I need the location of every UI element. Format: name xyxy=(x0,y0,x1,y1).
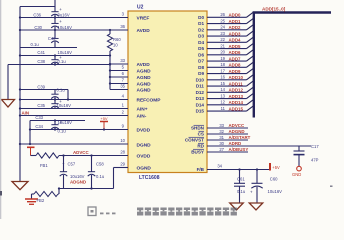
svg-text:C60: C60 xyxy=(270,177,278,182)
svg-text:AIN+: AIN+ xyxy=(137,107,148,113)
svg-text:36: 36 xyxy=(120,24,125,29)
svg-text:+: + xyxy=(59,7,62,12)
capacitor C61 0.1u xyxy=(239,170,241,184)
svg-text:D15: D15 xyxy=(196,109,205,114)
svg-text:13: 13 xyxy=(220,93,225,98)
pin D15 wire pin 11 net ADD15 xyxy=(207,110,247,112)
svg-text:ADD5: ADD5 xyxy=(229,44,242,49)
wire rung AGND pin 6 xyxy=(110,76,128,78)
svg-text:31: 31 xyxy=(219,135,224,140)
svg-text:3u16V: 3u16V xyxy=(58,13,70,18)
svg-text:C35: C35 xyxy=(37,103,45,108)
svg-text:24: 24 xyxy=(220,25,225,30)
svg-text:10u16V: 10u16V xyxy=(57,103,72,108)
svg-text:C41: C41 xyxy=(37,50,45,55)
wire VREF row to pin 3 xyxy=(20,17,128,19)
svg-text:10u16V: 10u16V xyxy=(70,174,85,179)
svg-text:10: 10 xyxy=(120,138,125,143)
pin D12 wire pin 14 net ADD12 xyxy=(207,91,247,93)
svg-text:0.1u: 0.1u xyxy=(237,189,246,194)
svg-text:C58: C58 xyxy=(96,162,104,167)
capacitor C40 0.1u xyxy=(54,30,56,38)
capacitor C30 10u16V xyxy=(54,18,56,24)
svg-text:23: 23 xyxy=(220,31,225,36)
svg-text:GND: GND xyxy=(292,172,301,177)
svg-text:D7: D7 xyxy=(198,59,204,64)
svg-text:ADD12: ADD12 xyxy=(229,88,244,93)
wire row y=55.5 to ladder xyxy=(20,55,110,57)
svg-text:15: 15 xyxy=(220,81,225,86)
svg-text:DGND: DGND xyxy=(137,142,152,148)
svg-text:A/DSTART: A/DSTART xyxy=(229,135,251,140)
pin D14 wire pin 12 net ADD14 xyxy=(207,104,247,106)
svg-text:D0: D0 xyxy=(198,15,204,20)
svg-text:VREF: VREF xyxy=(137,16,150,22)
capacitor C58 0.1u xyxy=(91,156,93,172)
svg-text:D9: D9 xyxy=(198,71,204,76)
svg-text:ADD11: ADD11 xyxy=(229,81,244,86)
op IC U2 LTC1608 body xyxy=(128,11,207,173)
svg-text:ADD[15..0]: ADD[15..0] xyxy=(262,7,286,12)
svg-text:16: 16 xyxy=(220,75,225,80)
svg-text:26: 26 xyxy=(220,12,225,17)
junction dots xyxy=(19,16,21,18)
pin CONVST wire pin 31 net A/DSTART xyxy=(207,139,248,141)
svg-text:D1: D1 xyxy=(198,21,204,26)
svg-text:33: 33 xyxy=(219,123,224,128)
svg-text:10u16V: 10u16V xyxy=(58,50,73,55)
svg-text:D5: D5 xyxy=(198,46,204,51)
svg-text:ADD10: ADD10 xyxy=(229,75,244,80)
wire ADGND bottom rail xyxy=(59,188,114,190)
svg-text:D10: D10 xyxy=(196,77,205,82)
svg-text:CONVST: CONVST xyxy=(185,138,204,143)
svg-text:AGND: AGND xyxy=(137,88,152,94)
svg-text:20: 20 xyxy=(220,50,225,55)
svg-text:AVDD: AVDD xyxy=(137,28,151,34)
caption fragment at bottom xyxy=(88,207,237,216)
svg-text:C33: C33 xyxy=(35,115,43,120)
svg-text:ADD8: ADD8 xyxy=(229,63,242,68)
svg-text:ADD6: ADD6 xyxy=(229,50,242,55)
svg-text:C36: C36 xyxy=(33,13,41,18)
svg-text:ADD3: ADD3 xyxy=(229,31,242,36)
pin D6 wire pin 20 net ADD6 xyxy=(207,54,247,56)
power bar at FB1 input xyxy=(27,146,35,148)
wire bottom short row y=47.5 xyxy=(20,47,77,49)
svg-text:30: 30 xyxy=(219,141,224,146)
svg-text:ADD2: ADD2 xyxy=(229,25,242,30)
svg-text:10: 10 xyxy=(113,43,118,48)
wire FB1 input xyxy=(31,155,37,157)
svg-text:34: 34 xyxy=(217,164,222,169)
ground GND4 at C60 xyxy=(249,203,263,210)
capacitor C41 10u16V xyxy=(54,56,56,60)
capacitor C39 0.1u xyxy=(54,90,56,95)
svg-text:5: 5 xyxy=(122,65,125,70)
wire row y=89.5 with jog xyxy=(20,89,68,91)
svg-text:AGND: AGND xyxy=(137,69,152,75)
svg-text:+5V: +5V xyxy=(100,116,108,121)
svg-text:0.1u: 0.1u xyxy=(58,59,67,64)
svg-text:9: 9 xyxy=(122,124,125,129)
wire rail GND-left vertical x=20 xyxy=(19,7,21,182)
svg-text:D2: D2 xyxy=(198,27,204,32)
svg-text:C38: C38 xyxy=(37,59,45,64)
svg-text:10u16V: 10u16V xyxy=(268,189,283,194)
svg-text:14: 14 xyxy=(220,87,225,92)
svg-text:29: 29 xyxy=(120,162,125,167)
svg-text:ADD13: ADD13 xyxy=(229,94,244,99)
wire AIN- row pin 2 xyxy=(20,115,128,117)
svg-text:AIN: AIN xyxy=(22,111,30,116)
svg-text:ADD14: ADD14 xyxy=(229,100,244,105)
capacitor C35 10u16V xyxy=(54,100,56,104)
svg-text:AGND: AGND xyxy=(137,75,152,81)
svg-text:10u16V: 10u16V xyxy=(58,120,73,125)
svg-text:FB1: FB1 xyxy=(40,163,48,168)
svg-text:0.1u: 0.1u xyxy=(96,174,105,179)
page edge left xyxy=(0,0,1,219)
page speck bottom-left xyxy=(0,191,2,196)
wire C-bank vertical x=30 xyxy=(29,121,31,145)
wire AIN+ row pin 1 xyxy=(20,108,128,110)
ground GND3 at C61 xyxy=(230,203,244,210)
svg-text:+: + xyxy=(62,162,65,167)
earth ground red at FB2 xyxy=(25,198,38,200)
svg-text:D6: D6 xyxy=(198,52,204,57)
svg-text:C34: C34 xyxy=(35,124,43,129)
svg-text:47P: 47P xyxy=(311,158,319,163)
svg-text:AIN-: AIN- xyxy=(137,114,147,120)
svg-text:ADD1: ADD1 xyxy=(229,19,242,24)
power +5V at DVDD xyxy=(100,121,108,123)
wire rung AVDD pin 33 xyxy=(110,63,128,65)
pin D2 wire pin 24 net ADD2 xyxy=(207,29,247,31)
pin SHDN wire pin 33 net ADVCC xyxy=(207,127,248,129)
page speck right xyxy=(330,186,333,187)
wire DGND row pin 10 xyxy=(20,143,128,145)
svg-text:+: + xyxy=(59,19,62,24)
svg-text:4: 4 xyxy=(122,94,125,99)
svg-text:C57: C57 xyxy=(68,162,76,167)
svg-text:10u16V: 10u16V xyxy=(58,25,73,30)
svg-text:OVDD: OVDD xyxy=(137,154,151,160)
svg-text:+5V: +5V xyxy=(272,165,280,170)
svg-text:ADVCC: ADVCC xyxy=(73,150,89,155)
wire rung AGND pin 35 xyxy=(110,89,128,91)
pin D9 wire pin 17 net ADD9 xyxy=(207,73,247,75)
wire OGND riser xyxy=(113,168,115,189)
pin D3 wire pin 23 net ADD3 xyxy=(207,35,247,37)
svg-text:12: 12 xyxy=(220,100,225,105)
svg-text:CS: CS xyxy=(198,132,204,137)
pin RD wire pin 30 net ADRD xyxy=(207,145,311,147)
ferrite bead FB2 xyxy=(58,189,60,195)
svg-text:17: 17 xyxy=(220,68,225,73)
wire top short row y=6.5 xyxy=(20,6,55,8)
svg-text:21: 21 xyxy=(220,43,225,48)
svg-text:U2: U2 xyxy=(137,4,144,10)
svg-text:ADRD: ADRD xyxy=(229,141,242,146)
svg-text:D8: D8 xyxy=(198,65,204,70)
pin D8 wire pin 18 net ADD8 xyxy=(207,66,247,68)
svg-text:28: 28 xyxy=(120,150,125,155)
svg-text:F/B: F/B xyxy=(197,167,205,172)
svg-text:18: 18 xyxy=(220,62,225,67)
svg-text:RD: RD xyxy=(197,144,204,149)
svg-text:C30: C30 xyxy=(34,25,42,30)
wire rung AGND pin 7 xyxy=(110,83,128,85)
svg-text:35: 35 xyxy=(120,84,125,89)
wire rail x=8 down to ground xyxy=(7,65,9,100)
svg-text:D14: D14 xyxy=(196,102,205,107)
svg-text:11: 11 xyxy=(221,106,226,111)
svg-text:ADD9: ADD9 xyxy=(229,69,242,74)
capacitor C60 10u16V xyxy=(256,170,258,184)
wire OVDD row pin 28 net ADVCC xyxy=(59,155,128,157)
svg-text:0.1u: 0.1u xyxy=(57,88,66,93)
svg-text:+: + xyxy=(250,189,253,194)
wire AGND ladder vertical x=110 xyxy=(109,56,111,90)
bus ADD[15..0] xyxy=(254,13,331,118)
wire REFCOMP row pin 4 xyxy=(20,99,128,101)
svg-text:7: 7 xyxy=(122,78,125,83)
svg-text:0.1u: 0.1u xyxy=(31,42,40,47)
svg-text:C39: C39 xyxy=(37,85,45,90)
svg-text:3: 3 xyxy=(122,12,125,17)
svg-text:ADD0: ADD0 xyxy=(229,13,242,18)
ground GND1 bottom of left rail xyxy=(12,182,28,190)
capacitor C57 10u16V xyxy=(63,156,65,172)
svg-text:ADD4: ADD4 xyxy=(229,38,242,43)
svg-text:27: 27 xyxy=(219,147,224,152)
svg-text:C61: C61 xyxy=(237,176,245,181)
pin D5 wire pin 21 net ADD5 xyxy=(207,48,247,50)
pin D7 wire pin 19 net ADD7 xyxy=(207,60,247,62)
svg-text:BUSY: BUSY xyxy=(191,150,204,155)
svg-text:AGND: AGND xyxy=(137,82,152,88)
pin D13 wire pin 13 net ADD13 xyxy=(207,98,247,100)
svg-text:A/DBUSY: A/DBUSY xyxy=(229,147,249,152)
svg-text:2: 2 xyxy=(122,110,125,115)
svg-text:D12: D12 xyxy=(196,90,205,95)
svg-text:33: 33 xyxy=(120,58,125,63)
svg-text:SHDN: SHDN xyxy=(191,126,205,131)
svg-text:1: 1 xyxy=(122,103,125,108)
wire cap-chain top stub to image edge xyxy=(54,0,56,7)
pin D11 wire pin 15 net ADD11 xyxy=(207,85,247,87)
pin D4 wire pin 22 net ADD4 xyxy=(207,41,247,43)
svg-text:C40: C40 xyxy=(48,36,56,41)
resistor R60 10 ohm xyxy=(109,30,111,34)
svg-text:22: 22 xyxy=(220,37,225,42)
svg-text:D13: D13 xyxy=(196,96,205,101)
svg-text:C17: C17 xyxy=(311,144,319,149)
svg-text:ADVCC: ADVCC xyxy=(229,123,245,128)
svg-text:FB2: FB2 xyxy=(37,198,45,203)
svg-text:LTC1608: LTC1608 xyxy=(139,175,160,181)
svg-text:19: 19 xyxy=(220,56,225,61)
pin D10 wire pin 16 net ADD10 xyxy=(207,79,247,81)
power ground marker at C17 xyxy=(297,166,302,171)
svg-text:AVDD: AVDD xyxy=(137,62,151,68)
wire DVDD row pin 9 xyxy=(30,129,128,131)
pin BUSY wire pin 27 net A/DBUSY xyxy=(207,151,248,153)
svg-text:6: 6 xyxy=(122,71,125,76)
svg-text:D3: D3 xyxy=(198,34,204,39)
svg-text:REFCOMP: REFCOMP xyxy=(137,98,162,104)
pin D1 wire pin 25 net ADD1 xyxy=(207,23,247,25)
svg-text:D11: D11 xyxy=(196,84,205,89)
wire rung AGND pin 5 xyxy=(110,70,128,72)
pin F/B wire pin 34 xyxy=(207,169,270,171)
svg-text:ADD15: ADD15 xyxy=(229,106,244,111)
ferrite bead FB1 xyxy=(36,153,59,158)
ground GND2 upper-left xyxy=(2,100,15,108)
svg-text:D4: D4 xyxy=(198,40,204,45)
wire OGND row pin 29 xyxy=(114,167,129,169)
power +5V right xyxy=(269,163,271,171)
wire AVDD row to pin 36 xyxy=(20,29,128,31)
svg-text:ADGND: ADGND xyxy=(70,180,86,185)
svg-text:ADGND: ADGND xyxy=(229,129,245,134)
wire row y=120.5 xyxy=(30,120,85,122)
svg-text:ADD7: ADD7 xyxy=(229,56,242,61)
pin D0 wire pin 26 net ADD0 xyxy=(207,16,247,18)
svg-text:DVDD: DVDD xyxy=(137,128,151,134)
svg-text:R60: R60 xyxy=(113,37,121,42)
capacitor C17 47P xyxy=(298,146,300,151)
capacitor C33 10u16V xyxy=(54,121,56,125)
capacitor C36 3u16V xyxy=(54,7,56,12)
svg-text:OGND: OGND xyxy=(137,166,152,172)
pin CS wire pin 32 net ADGND xyxy=(207,133,248,135)
wire row y=64.5 from x=8 xyxy=(8,64,110,66)
svg-text:32: 32 xyxy=(219,129,224,134)
svg-text:25: 25 xyxy=(220,18,225,23)
